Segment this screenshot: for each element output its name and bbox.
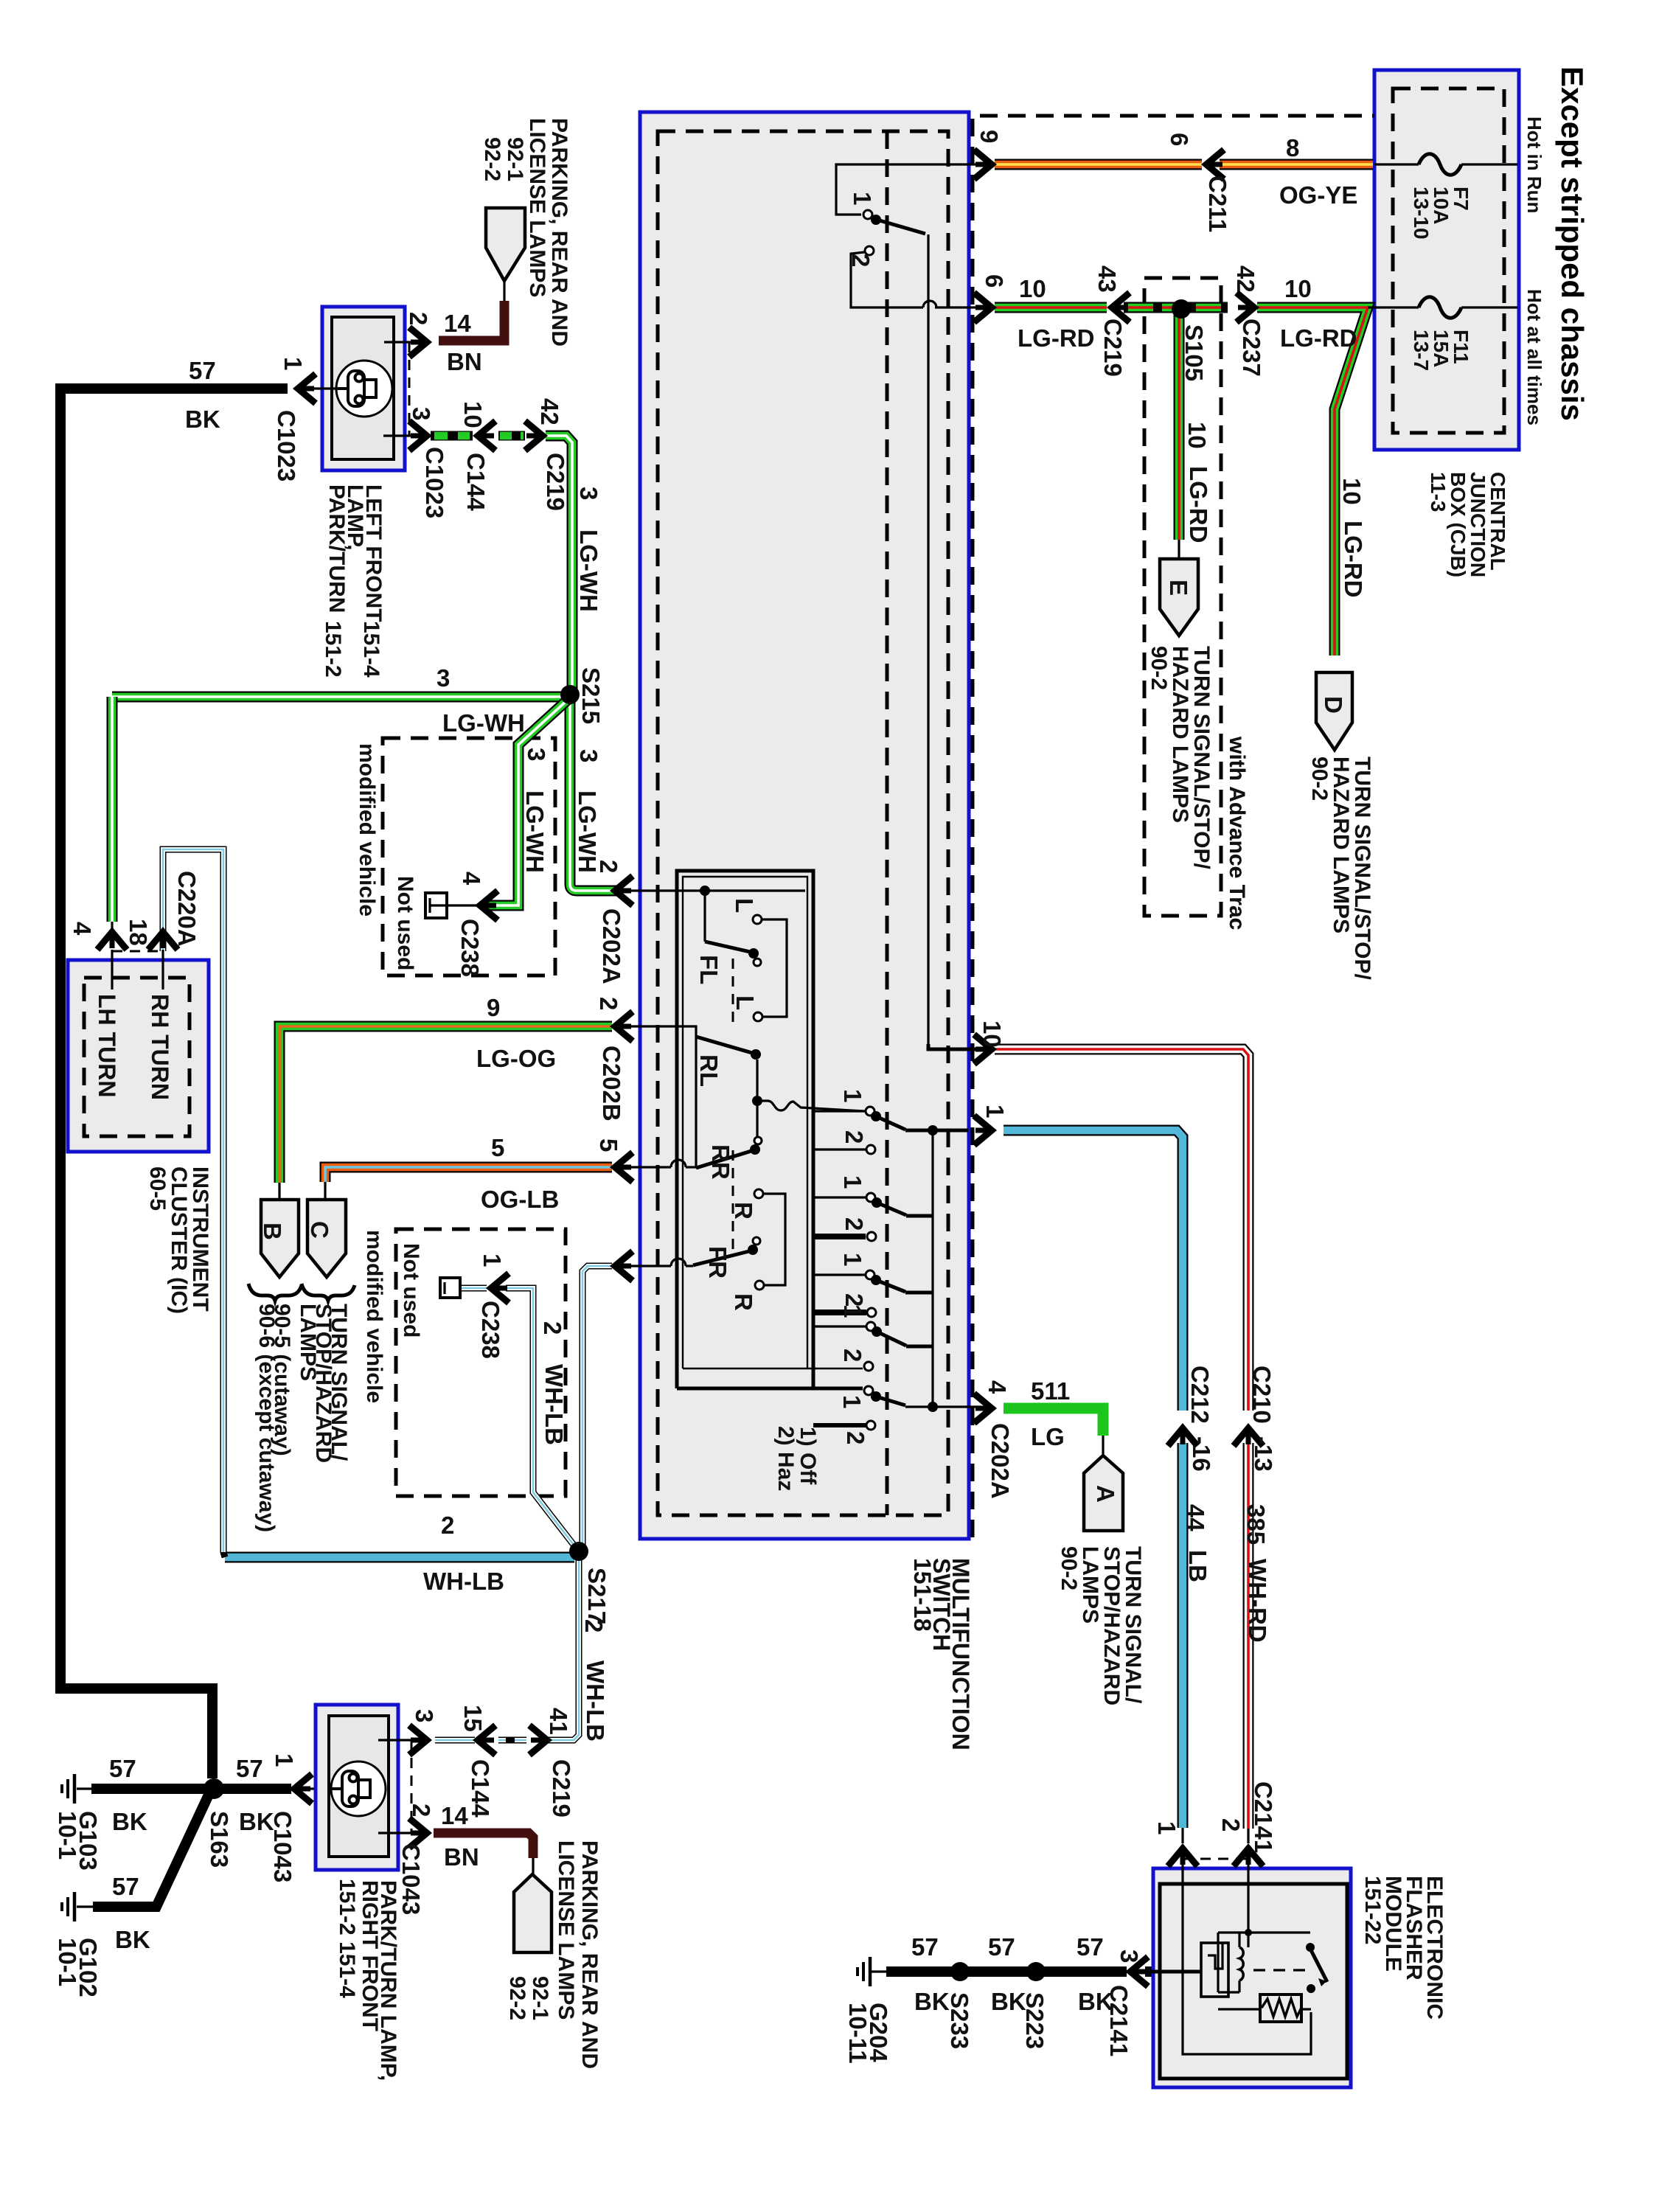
svg-text:1: 1 <box>479 1253 506 1267</box>
svg-text:C1023: C1023 <box>273 410 300 481</box>
svg-text:B: B <box>259 1222 286 1240</box>
svg-text:10: 10 <box>978 1020 1006 1048</box>
svg-text:14: 14 <box>441 1802 468 1829</box>
svg-text:1: 1 <box>839 1253 866 1266</box>
svg-text:90-2: 90-2 <box>1147 646 1171 690</box>
svg-text:13-7: 13-7 <box>1410 330 1433 371</box>
svg-text:2: 2 <box>841 1217 868 1231</box>
svg-text:5: 5 <box>491 1134 504 1161</box>
svg-text:LICENSE LAMPS: LICENSE LAMPS <box>525 118 549 297</box>
svg-text:C220A: C220A <box>173 871 201 947</box>
svg-text:LICENSE LAMPS: LICENSE LAMPS <box>554 1840 578 2020</box>
svg-text:C: C <box>306 1221 333 1239</box>
svg-text:1: 1 <box>1153 1821 1180 1834</box>
svg-text:C212: C212 <box>1186 1366 1214 1424</box>
svg-text:90-6 (except cutaway): 90-6 (except cutaway) <box>254 1304 279 1532</box>
svg-text:43: 43 <box>1093 265 1121 293</box>
svg-text:FL: FL <box>695 955 723 984</box>
svg-text:2: 2 <box>405 312 432 325</box>
svg-text:10: 10 <box>1284 275 1312 302</box>
svg-text:2: 2 <box>595 997 622 1010</box>
svg-text:S223: S223 <box>1021 1992 1048 2049</box>
svg-text:OG-YE: OG-YE <box>1279 181 1357 209</box>
svg-text:S215: S215 <box>577 667 605 724</box>
svg-text:10-1: 10-1 <box>54 1811 81 1860</box>
svg-text:385: 385 <box>1242 1504 1270 1545</box>
svg-text:6: 6 <box>1166 133 1193 146</box>
svg-text:OG-LB: OG-LB <box>481 1186 559 1213</box>
svg-text:PARKING, REAR AND: PARKING, REAR AND <box>577 1840 602 2069</box>
svg-text:1: 1 <box>838 1395 866 1408</box>
svg-text:C1043: C1043 <box>269 1811 296 1882</box>
svg-text:C219: C219 <box>548 1759 575 1818</box>
svg-text:92-1: 92-1 <box>528 1976 552 2020</box>
svg-text:1: 1 <box>271 1753 298 1767</box>
svg-text:C237: C237 <box>1238 319 1265 377</box>
svg-text:57: 57 <box>911 1933 939 1961</box>
svg-text:151-18: 151-18 <box>909 1558 936 1632</box>
svg-text:9: 9 <box>487 994 500 1021</box>
svg-text:8: 8 <box>1286 134 1299 161</box>
svg-text:LG-RD: LG-RD <box>1340 521 1367 597</box>
svg-text:Not used: Not used <box>399 1243 423 1338</box>
svg-text:A: A <box>1092 1485 1119 1503</box>
svg-text:42: 42 <box>536 398 563 425</box>
svg-text:LG-RD: LG-RD <box>1185 466 1212 543</box>
svg-text:3: 3 <box>1116 1950 1143 1963</box>
svg-text:BK: BK <box>112 1808 147 1835</box>
svg-text:C202B: C202B <box>598 1046 625 1121</box>
svg-text:LG: LG <box>1031 1423 1065 1450</box>
svg-text:WH-LB: WH-LB <box>540 1364 568 1445</box>
svg-text:5: 5 <box>595 1138 622 1152</box>
svg-text:WH-RD: WH-RD <box>1244 1559 1271 1643</box>
svg-text:9: 9 <box>975 130 1003 143</box>
svg-text:1: 1 <box>839 1175 866 1189</box>
svg-text:RIGHT FRONT: RIGHT FRONT <box>358 1880 382 2031</box>
svg-text:Not used: Not used <box>393 876 417 970</box>
svg-text:2: 2 <box>839 1349 866 1362</box>
svg-text:10: 10 <box>1338 478 1366 505</box>
svg-text:1: 1 <box>839 1089 866 1102</box>
svg-text:2: 2 <box>1217 1818 1245 1832</box>
svg-text:2: 2 <box>842 1431 869 1444</box>
svg-text:C238: C238 <box>477 1301 504 1359</box>
svg-text:10: 10 <box>459 401 487 428</box>
svg-text:2: 2 <box>408 1804 435 1817</box>
svg-text:1: 1 <box>981 1105 1009 1118</box>
svg-text:LEFT FRONT: LEFT FRONT <box>361 484 386 622</box>
svg-text:10-11: 10-11 <box>844 2003 872 2064</box>
svg-text:S163: S163 <box>206 1811 233 1868</box>
svg-text:Except stripped chassis: Except stripped chassis <box>1555 66 1590 421</box>
svg-text:2: 2 <box>847 254 874 267</box>
svg-text:S233: S233 <box>946 1992 973 2049</box>
svg-text:-16: -16 <box>1188 1436 1215 1472</box>
svg-text:L: L <box>731 995 759 1010</box>
svg-text:WH-LB: WH-LB <box>582 1660 609 1742</box>
svg-text:2) Haz: 2) Haz <box>773 1426 798 1491</box>
svg-text:511: 511 <box>1031 1377 1070 1405</box>
svg-text:151-2: 151-2 <box>321 621 345 678</box>
svg-text:LB: LB <box>1184 1550 1211 1582</box>
svg-text:Hot at all times: Hot at all times <box>1523 289 1545 425</box>
svg-text:92-1: 92-1 <box>503 137 527 181</box>
svg-text:60-5: 60-5 <box>145 1166 170 1211</box>
svg-text:C219: C219 <box>1099 319 1127 377</box>
svg-text:15: 15 <box>459 1705 487 1732</box>
svg-text:1) Off: 1) Off <box>796 1427 820 1485</box>
svg-text:-13: -13 <box>1250 1436 1277 1472</box>
svg-text:2: 2 <box>595 860 622 873</box>
svg-text:BK: BK <box>914 1988 950 2015</box>
svg-text:modified vehicle: modified vehicle <box>355 743 379 917</box>
svg-text:13-10: 13-10 <box>1410 187 1433 240</box>
svg-text:BK: BK <box>185 406 220 433</box>
svg-text:C2141: C2141 <box>1105 1985 1133 2056</box>
svg-text:C219: C219 <box>542 453 569 511</box>
svg-text:R: R <box>730 1202 757 1220</box>
svg-text:C1023: C1023 <box>421 447 448 518</box>
svg-text:44: 44 <box>1182 1504 1209 1531</box>
svg-text:modified vehicle: modified vehicle <box>362 1230 386 1403</box>
svg-text:C211: C211 <box>1204 175 1231 232</box>
svg-text:10: 10 <box>1183 422 1211 449</box>
svg-text:LG-WH: LG-WH <box>521 790 549 873</box>
svg-text:LG-RD: LG-RD <box>1018 324 1094 352</box>
svg-text:14: 14 <box>444 310 471 337</box>
svg-text:151-22: 151-22 <box>1360 1876 1385 1944</box>
svg-text:C144: C144 <box>462 453 490 512</box>
svg-text:D: D <box>1320 696 1347 714</box>
svg-text:C202A: C202A <box>987 1423 1014 1499</box>
svg-text:Hot in Run: Hot in Run <box>1523 116 1545 213</box>
svg-text:3: 3 <box>408 407 435 420</box>
svg-text:90-2: 90-2 <box>1057 1546 1081 1590</box>
svg-text:2: 2 <box>539 1321 566 1335</box>
svg-text:18: 18 <box>125 919 152 946</box>
svg-text:2: 2 <box>841 1130 868 1144</box>
svg-text:PARKING, REAR AND: PARKING, REAR AND <box>547 118 571 347</box>
svg-text:151-4: 151-4 <box>359 621 383 678</box>
svg-text:41: 41 <box>545 1708 572 1735</box>
svg-text:2: 2 <box>580 1619 608 1632</box>
svg-text:92-2: 92-2 <box>505 1976 529 2020</box>
svg-text:3: 3 <box>411 1709 438 1722</box>
svg-text:RH TURN: RH TURN <box>147 994 173 1100</box>
svg-text:RL: RL <box>695 1054 723 1087</box>
svg-text:FR: FR <box>704 1246 731 1279</box>
svg-text:C210: C210 <box>1248 1366 1276 1424</box>
svg-text:C1043: C1043 <box>397 1843 425 1915</box>
svg-text:57: 57 <box>236 1755 263 1782</box>
svg-text:92-2: 92-2 <box>480 137 504 181</box>
svg-text:LG-RD: LG-RD <box>1280 324 1357 352</box>
svg-text:LAMPS: LAMPS <box>296 1304 320 1381</box>
svg-text:57: 57 <box>112 1873 139 1900</box>
svg-text:3: 3 <box>575 487 602 500</box>
svg-text:S217: S217 <box>583 1568 611 1624</box>
svg-text:RR: RR <box>707 1144 734 1180</box>
svg-text:2: 2 <box>441 1512 454 1539</box>
svg-text:4: 4 <box>984 1380 1011 1394</box>
svg-text:BK: BK <box>115 1926 150 1953</box>
svg-text:57: 57 <box>988 1933 1015 1961</box>
svg-text:LG-WH: LG-WH <box>442 709 525 737</box>
svg-text:1: 1 <box>849 192 876 205</box>
svg-text:57: 57 <box>1077 1933 1104 1961</box>
svg-text:3: 3 <box>575 749 602 762</box>
svg-text:C238: C238 <box>456 919 484 977</box>
svg-text:4: 4 <box>69 922 96 936</box>
svg-text:90-2: 90-2 <box>1307 757 1332 801</box>
svg-text:R: R <box>730 1293 757 1311</box>
svg-text:BK: BK <box>239 1808 274 1835</box>
svg-text:151-2 151-4: 151-2 151-4 <box>335 1879 359 1998</box>
svg-text:LG-WH: LG-WH <box>575 529 602 612</box>
svg-text:1: 1 <box>839 1304 866 1318</box>
svg-text:C2141: C2141 <box>1250 1781 1277 1853</box>
svg-text:6: 6 <box>981 274 1008 288</box>
svg-text:LH TURN: LH TURN <box>94 994 120 1097</box>
svg-text:57: 57 <box>109 1755 136 1782</box>
svg-text:3: 3 <box>437 664 450 692</box>
svg-text:C202A: C202A <box>598 908 625 984</box>
svg-text:57: 57 <box>189 357 216 384</box>
svg-text:11-3: 11-3 <box>1427 472 1450 512</box>
svg-text:1: 1 <box>279 357 307 370</box>
svg-text:3: 3 <box>523 748 550 761</box>
svg-text:42: 42 <box>1232 265 1259 293</box>
svg-text:LG-OG: LG-OG <box>476 1045 556 1072</box>
svg-text:E: E <box>1165 580 1192 596</box>
svg-text:10-1: 10-1 <box>54 1938 81 1986</box>
svg-text:10: 10 <box>1019 275 1046 302</box>
svg-text:C144: C144 <box>467 1759 494 1818</box>
svg-text:L: L <box>731 898 758 913</box>
svg-text:WH-LB: WH-LB <box>423 1568 504 1595</box>
svg-text:4: 4 <box>458 872 485 886</box>
svg-text:BN: BN <box>447 348 482 375</box>
svg-text:BN: BN <box>444 1843 479 1871</box>
svg-text:BK: BK <box>991 1988 1026 2015</box>
svg-text:with Advance Trac: with Advance Trac <box>1225 736 1249 930</box>
svg-text:S105: S105 <box>1180 324 1208 381</box>
